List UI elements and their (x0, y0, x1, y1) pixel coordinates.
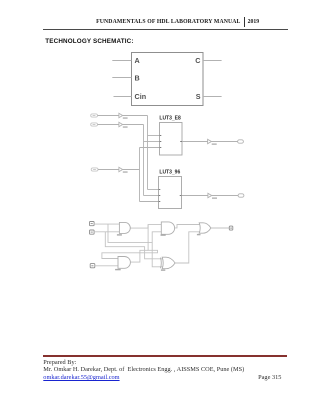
and gate G4 (118, 257, 130, 269)
pin label B (135, 73, 140, 82)
input pad B (oval) (91, 123, 98, 126)
wire G3 output to pad (211, 227, 229, 229)
LUT U2 LUT3_96 body (159, 177, 182, 209)
wire U1 input I0 (148, 135, 160, 137)
ibuf buffer B (119, 122, 123, 126)
wire B2 to xor gate (94, 231, 119, 233)
wire branch A down (108, 224, 163, 267)
wire U2 output O (182, 195, 208, 197)
footer email link (43, 374, 119, 381)
gate-level: input pad Cin2 (90, 264, 95, 268)
wire A2 to xor gate (94, 223, 119, 225)
wire obuf C to pad (211, 141, 237, 143)
header underline rule (43, 29, 288, 30)
svg-text:C: C (195, 56, 200, 65)
wire input A stub (112, 60, 131, 62)
pin label A (135, 56, 140, 65)
header year 2019 (248, 19, 260, 25)
header title text (0, 19, 241, 25)
ibuf buffer Cin (119, 167, 123, 171)
pin label S (196, 92, 201, 101)
xor gate G5 (161, 257, 176, 269)
label obuf S (212, 197, 217, 199)
label LUT3_96 (159, 170, 180, 176)
label ibuf B (123, 126, 128, 128)
U1 pin marks (160, 136, 183, 148)
wire input B stub (112, 77, 131, 79)
wire U1 output O (182, 141, 208, 143)
label obuf C (212, 143, 217, 145)
wire G1 output lower branch (102, 225, 158, 259)
wire net Cin vertical (139, 148, 141, 202)
footer page number (0, 374, 281, 381)
svg-text:S: S (196, 92, 201, 101)
label G5 (161, 269, 165, 270)
wire G2 output to G3 (174, 225, 200, 228)
and gate G2 (161, 222, 174, 234)
wire U2 input I0 (148, 189, 159, 191)
wire pad A to ibuf (98, 115, 119, 117)
svg-text:B: B (135, 73, 140, 82)
label G3 (197, 234, 201, 235)
LUT U1 LUT3_E8 body (160, 123, 183, 156)
wire G4 output stub (130, 250, 148, 262)
or gate G3 (199, 223, 211, 233)
wire G1 output net (130, 225, 161, 229)
wire pad Cin to ibuf (98, 169, 119, 171)
svg-text:Cin: Cin (135, 92, 147, 101)
header divider bar (244, 17, 245, 27)
wire output S stub (203, 96, 222, 98)
svg-text:LUT3_96: LUT3_96 (159, 170, 180, 176)
wire pad B to ibuf (98, 124, 119, 126)
output pad S (oval) (238, 194, 244, 197)
wire branch B down (105, 232, 163, 259)
wire U2 input I2 (140, 201, 159, 203)
obuf buffer C (208, 139, 212, 143)
gate-level: output pad C2 (229, 226, 233, 230)
wire ibuf B to bus (123, 124, 144, 126)
wire U1 input I2 (140, 147, 160, 149)
pin label C (195, 56, 200, 65)
wire output C stub (203, 60, 222, 62)
wire U1 input I1 (144, 141, 160, 143)
svg-text:A: A (135, 56, 140, 65)
wire branch A to G2 lower input (152, 232, 161, 243)
label ibuf A (123, 117, 128, 119)
gate-level: input pad A2 (90, 222, 95, 226)
label G4 (115, 269, 121, 270)
wire ibuf Cin to bus (123, 169, 140, 171)
output pad C (oval) (238, 140, 244, 143)
footer line 1 (43, 359, 76, 366)
wire ibuf A to bus (123, 115, 148, 117)
gate-level: input pad B2 (90, 230, 95, 234)
top-level symbol box (132, 53, 204, 106)
wire net B vertical (143, 125, 145, 196)
section heading (45, 38, 133, 45)
footer rule (43, 355, 288, 357)
footer line 2 (43, 366, 244, 373)
obuf buffer S (208, 193, 212, 197)
xor gate G1 (119, 222, 130, 233)
label G1 (117, 234, 122, 235)
wire net A vertical (147, 116, 149, 190)
wire U2 input I1 (144, 195, 159, 197)
wire obuf S to pad (212, 195, 238, 197)
input pad Cin (oval) (91, 168, 98, 171)
label ibuf Cin (123, 171, 128, 173)
input pad A (oval) (91, 114, 98, 117)
label G2 (161, 234, 166, 235)
label LUT3_E8 (159, 116, 181, 122)
wire G5 output to G3 (175, 232, 200, 263)
svg-text:LUT3_E8: LUT3_E8 (159, 116, 181, 122)
ibuf buffer A (119, 113, 123, 117)
wire input Cin stub (114, 96, 132, 98)
wire Cin2 to and gate G4 (95, 265, 118, 267)
pin label Cin (135, 92, 147, 101)
U2 pin marks (159, 190, 182, 202)
